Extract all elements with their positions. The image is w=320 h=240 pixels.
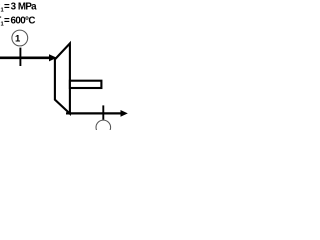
svg-text:1: 1: [15, 33, 21, 44]
svg-text:=: =: [4, 16, 10, 27]
svg-text:=: =: [4, 2, 10, 13]
svg-text:3: 3: [11, 2, 17, 13]
svg-text:600°C: 600°C: [11, 16, 36, 27]
svg-text:MPa: MPa: [18, 2, 37, 13]
